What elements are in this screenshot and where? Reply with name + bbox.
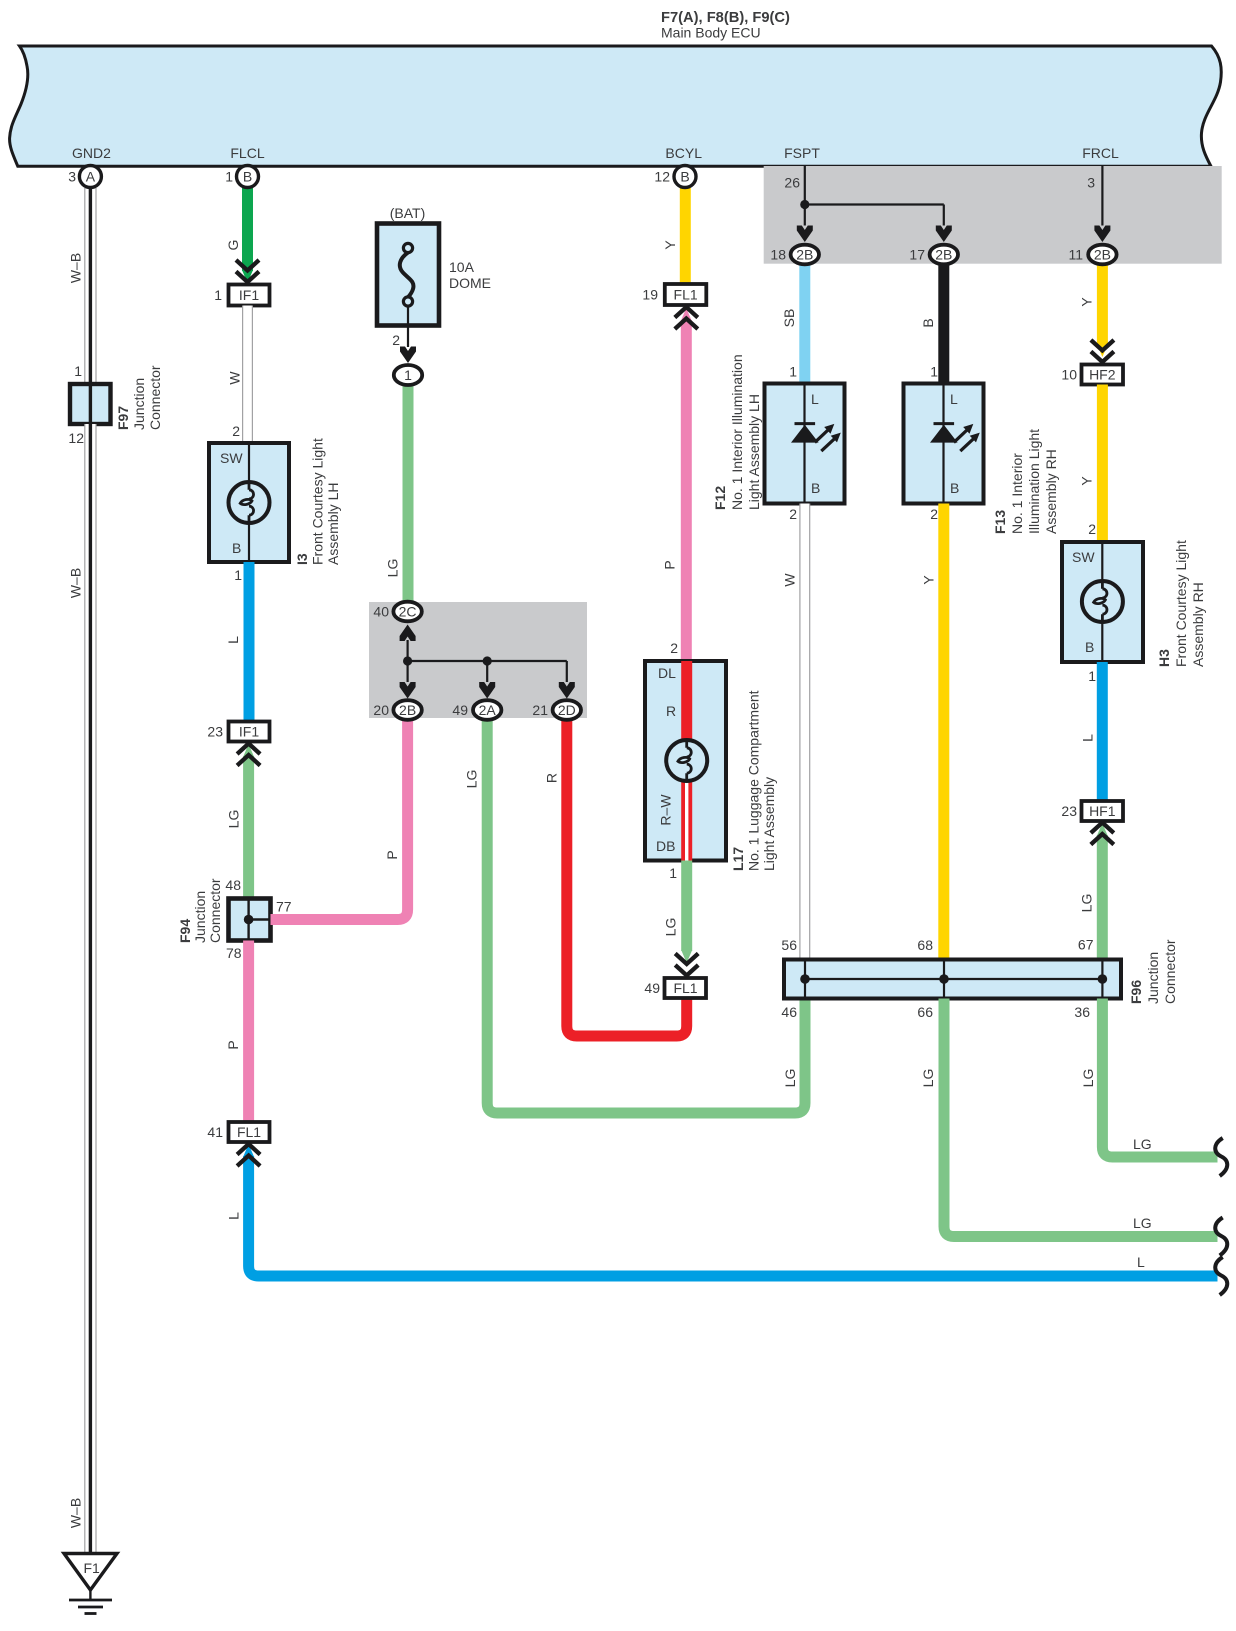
svg-text:2: 2 — [670, 640, 678, 656]
label L — [1080, 734, 1096, 742]
svg-text:DL: DL — [658, 665, 676, 681]
wire LG from F96 pin 66 to right break — [944, 999, 1218, 1237]
label LG — [663, 918, 679, 937]
wire LG from L17 pin 1 to FL1 49 — [681, 861, 692, 964]
chevron into HF2 — [1091, 340, 1114, 362]
svg-text:10A: 10A — [449, 259, 475, 275]
label LG — [1079, 894, 1095, 913]
interior illumination light assembly LH F12 — [712, 354, 845, 510]
svg-text:21: 21 — [532, 702, 548, 718]
svg-text:18: 18 — [770, 247, 786, 263]
label W-B middle — [68, 568, 84, 598]
svg-text:1: 1 — [404, 367, 412, 383]
svg-text:11: 11 — [1068, 247, 1083, 263]
svg-text:W–B: W–B — [68, 1498, 84, 1528]
arrows down into 2B 2A 2D — [400, 682, 416, 699]
label P — [662, 560, 678, 569]
svg-text:FL1: FL1 — [674, 287, 698, 303]
svg-text:GND2: GND2 — [72, 145, 111, 161]
svg-text:41: 41 — [207, 1124, 223, 1140]
svg-text:W–B: W–B — [68, 568, 84, 598]
svg-text:Main Body ECU: Main Body ECU — [661, 25, 761, 41]
wire L from H3 pin 1 to HF1 — [1097, 662, 1108, 801]
arrow up into 2C — [400, 625, 416, 642]
front courtesy light assembly RH H3 — [1062, 540, 1206, 667]
wire Y from 2B 11 to HF2 — [1097, 262, 1108, 357]
svg-text:Y: Y — [1079, 297, 1095, 307]
svg-text:No. 1 Interior Illumination: No. 1 Interior Illumination — [729, 354, 745, 510]
svg-text:48: 48 — [225, 877, 241, 893]
connector box HF2 pin 10 — [1061, 365, 1123, 385]
svg-text:Connector: Connector — [147, 365, 163, 430]
wire B from 2B 17 to F13 pin 1 — [938, 262, 949, 384]
connector oval 2B pin 17 — [909, 245, 958, 265]
svg-text:SB: SB — [781, 309, 797, 328]
svg-text:20: 20 — [373, 702, 389, 718]
label LG — [385, 559, 401, 578]
svg-text:Y: Y — [1079, 476, 1095, 486]
svg-text:IF1: IF1 — [239, 724, 259, 740]
svg-text:46: 46 — [781, 1004, 797, 1020]
svg-text:FLCL: FLCL — [230, 145, 264, 161]
arrow into oval 1 — [400, 347, 416, 364]
svg-text:1: 1 — [930, 364, 938, 380]
svg-text:LG: LG — [782, 1069, 798, 1088]
label LG 2A — [464, 770, 480, 789]
wire W from IF1 to I3 pin 2 — [242, 306, 253, 444]
svg-text:P: P — [384, 850, 400, 859]
svg-text:W–B: W–B — [68, 253, 84, 283]
svg-text:Light Assembly LH: Light Assembly LH — [746, 394, 762, 510]
svg-text:L: L — [1137, 1254, 1145, 1270]
svg-text:IF1: IF1 — [239, 287, 259, 303]
FSPT branch wiring in gray box — [800, 166, 1102, 226]
svg-text:2B: 2B — [796, 247, 813, 263]
label R — [544, 773, 560, 783]
svg-text:67: 67 — [1078, 937, 1094, 953]
break symbol LG 36 — [1215, 1138, 1227, 1176]
svg-text:2B: 2B — [399, 702, 416, 718]
connector box HF1 pin 23 — [1061, 801, 1123, 821]
svg-text:2A: 2A — [479, 702, 497, 718]
connector box FL1 pin 41 — [207, 1122, 269, 1142]
svg-text:Connector: Connector — [207, 878, 223, 943]
connector oval 2B pin 20 — [373, 700, 421, 720]
wire P from 2B to F94 pin 77 — [271, 716, 408, 920]
svg-text:LG: LG — [464, 770, 480, 789]
svg-text:2: 2 — [232, 423, 240, 439]
svg-text:SW: SW — [1072, 549, 1095, 565]
svg-text:DOME: DOME — [449, 275, 491, 291]
svg-text:HF1: HF1 — [1089, 803, 1116, 819]
svg-text:Y: Y — [921, 575, 937, 585]
connector box IF1 pin 23 — [207, 722, 269, 742]
svg-text:W: W — [227, 371, 243, 385]
svg-text:2B: 2B — [1094, 247, 1111, 263]
gray connector region top right — [764, 166, 1222, 264]
label P — [384, 850, 400, 859]
svg-text:B: B — [243, 169, 252, 185]
junction connector F94 — [177, 877, 292, 961]
svg-text:1: 1 — [669, 865, 677, 881]
svg-text:Junction: Junction — [131, 378, 147, 430]
svg-text:No. 1 Luggage Compartment: No. 1 Luggage Compartment — [746, 690, 762, 871]
svg-text:12: 12 — [654, 169, 670, 185]
svg-text:1: 1 — [234, 567, 242, 583]
label Y — [921, 575, 937, 585]
wire SB from 2B 18 to F12 pin 1 — [799, 262, 810, 384]
svg-text:56: 56 — [781, 937, 797, 953]
label L below FL1 41 — [226, 1212, 242, 1220]
svg-text:L: L — [225, 636, 241, 644]
svg-text:66: 66 — [917, 1004, 933, 1020]
luggage compartment light assembly L17 — [645, 661, 777, 871]
svg-text:R–W: R–W — [658, 794, 674, 826]
svg-text:Light Assembly: Light Assembly — [761, 777, 777, 871]
connector box IF1 pin 1 — [214, 285, 269, 306]
wire W-B from F97 pin 12 to ground F1 — [84, 424, 96, 1553]
label W — [782, 573, 798, 587]
wire L from FL1 41 to right break — [243, 1144, 1217, 1276]
svg-text:F12: F12 — [712, 486, 728, 510]
connector oval 1 — [394, 365, 422, 385]
connector oval 2D pin 21 — [532, 700, 581, 720]
svg-text:23: 23 — [207, 724, 223, 740]
Main Body ECU band — [10, 46, 1222, 166]
label Y — [662, 240, 678, 250]
label Y — [1079, 297, 1095, 307]
label B — [920, 318, 936, 327]
svg-text:1: 1 — [74, 363, 82, 379]
svg-text:HF2: HF2 — [1089, 367, 1116, 383]
svg-text:3: 3 — [68, 169, 76, 185]
label LG near 46 — [782, 1069, 798, 1088]
svg-text:B: B — [1085, 639, 1094, 655]
svg-text:P: P — [662, 560, 678, 569]
label L — [225, 636, 241, 644]
gray connector region middle — [369, 602, 587, 718]
arrows into 2B ovals — [797, 226, 813, 243]
wire from fuse pin 2 — [407, 306, 409, 347]
svg-text:12: 12 — [68, 430, 84, 446]
front courtesy light assembly LH I3 — [209, 438, 341, 565]
svg-text:17: 17 — [909, 247, 925, 263]
svg-text:B: B — [680, 169, 689, 185]
svg-text:LG: LG — [1080, 1069, 1096, 1088]
svg-text:LG: LG — [1133, 1215, 1152, 1231]
svg-text:2C: 2C — [399, 604, 417, 620]
svg-text:B: B — [232, 540, 241, 556]
svg-text:A: A — [86, 169, 96, 185]
svg-text:40: 40 — [373, 604, 389, 620]
ground F1 — [64, 1554, 117, 1614]
wire LG from IF1 23 to F94 pin 48 — [243, 744, 254, 899]
label LG — [226, 810, 242, 829]
svg-text:2: 2 — [930, 506, 938, 522]
svg-text:SW: SW — [220, 450, 243, 466]
svg-text:LG: LG — [663, 918, 679, 937]
wire LG from oval 1 to 2C — [403, 380, 414, 612]
chevron out of FL1 41 — [237, 1144, 260, 1166]
connector oval 2B pin 11 — [1068, 245, 1116, 265]
svg-text:1: 1 — [789, 364, 797, 380]
wire LG from 2A to F96 pin 46 — [487, 716, 805, 1113]
svg-text:F97: F97 — [115, 406, 131, 430]
svg-text:L: L — [950, 391, 958, 407]
svg-text:3: 3 — [1087, 175, 1095, 191]
interior illumination light assembly RH F13 — [904, 384, 1060, 535]
label P — [225, 1040, 241, 1049]
label LG near 66 — [920, 1069, 936, 1088]
chevron into FL1 49 — [675, 954, 698, 976]
svg-text:77: 77 — [276, 899, 292, 915]
svg-text:L: L — [226, 1212, 242, 1220]
svg-text:LG: LG — [1079, 894, 1095, 913]
svg-text:23: 23 — [1061, 803, 1077, 819]
break symbol L — [1215, 1257, 1227, 1295]
wire L from I3 pin 1 to IF1 pin 23 — [244, 562, 255, 722]
svg-text:Junction: Junction — [1145, 952, 1161, 1004]
svg-text:Junction: Junction — [192, 891, 208, 943]
svg-text:2: 2 — [1088, 521, 1096, 537]
svg-text:2D: 2D — [558, 702, 576, 718]
connector oval 2B pin 18 — [770, 245, 819, 265]
chevron into IF1 — [236, 260, 259, 282]
svg-text:FRCL: FRCL — [1082, 145, 1119, 161]
svg-text:B: B — [950, 480, 959, 496]
chevron out of FL1 19 — [675, 307, 698, 329]
svg-text:10: 10 — [1061, 367, 1077, 383]
svg-text:L: L — [811, 391, 819, 407]
svg-text:19: 19 — [642, 287, 658, 303]
wire G from FLCL pin 1B — [242, 188, 253, 283]
svg-text:Assembly LH: Assembly LH — [325, 483, 341, 565]
connector circle A pin 3 (GND2) — [68, 166, 101, 188]
connector circle B pin 1 (FLCL) — [225, 166, 258, 188]
break symbol LG 66 — [1215, 1218, 1227, 1256]
svg-text:LG: LG — [226, 810, 242, 829]
svg-text:26: 26 — [784, 175, 800, 191]
svg-text:2: 2 — [392, 332, 400, 348]
svg-text:FSPT: FSPT — [784, 145, 820, 161]
wire W-B from GND2 pin 3A to F97 — [84, 188, 96, 384]
svg-text:H3: H3 — [1156, 649, 1172, 667]
wire Y from HF2 to H3 pin 2 — [1097, 385, 1108, 543]
svg-text:F1: F1 — [84, 1560, 101, 1576]
svg-text:F94: F94 — [177, 919, 193, 943]
connector oval 2A pin 49 — [452, 700, 501, 720]
wire W from F12 pin 2 to F96 pin 56 — [799, 504, 810, 960]
chevron out of HF1 — [1091, 823, 1114, 845]
svg-text:68: 68 — [917, 937, 933, 953]
svg-text:Illumination Light: Illumination Light — [1026, 429, 1042, 534]
svg-text:LG: LG — [1133, 1136, 1152, 1152]
svg-text:I3: I3 — [294, 553, 310, 565]
svg-text:No. 1 Interior: No. 1 Interior — [1009, 453, 1025, 534]
svg-text:Assembly RH: Assembly RH — [1043, 449, 1059, 534]
svg-text:1: 1 — [214, 287, 222, 303]
svg-text:36: 36 — [1074, 1004, 1090, 1020]
svg-text:LG: LG — [920, 1069, 936, 1088]
wire R from 2D to FL1 pin 49 — [567, 716, 687, 1036]
svg-text:Front Courtesy Light: Front Courtesy Light — [1173, 540, 1189, 667]
connector circle B pin 12 (BCYL) — [654, 166, 696, 188]
svg-text:B: B — [920, 318, 936, 327]
svg-text:Connector: Connector — [1162, 939, 1178, 1004]
gray box internal wiring 2C to 2B 2A 2D — [403, 640, 567, 682]
svg-text:G: G — [225, 240, 241, 251]
svg-text:L: L — [1080, 734, 1096, 742]
svg-text:R: R — [666, 703, 676, 719]
svg-text:B: B — [811, 480, 820, 496]
svg-text:Assembly RH: Assembly RH — [1190, 582, 1206, 667]
label LG near 36 — [1080, 1069, 1096, 1088]
wire P from F94 pin 78 to FL1 pin 41 — [243, 941, 254, 1123]
svg-text:2B: 2B — [935, 247, 952, 263]
svg-text:Y: Y — [662, 240, 678, 250]
connector box FL1 pin 19 — [642, 284, 706, 305]
svg-text:W: W — [782, 573, 798, 587]
svg-text:49: 49 — [452, 702, 468, 718]
label SB — [781, 309, 797, 328]
connector box FL1 pin 49 — [644, 978, 706, 998]
svg-text:FL1: FL1 — [237, 1124, 261, 1140]
label W-B lower — [68, 1498, 84, 1528]
svg-text:F13: F13 — [992, 510, 1008, 534]
svg-text:R: R — [544, 773, 560, 783]
svg-text:DB: DB — [656, 838, 675, 854]
svg-text:LG: LG — [385, 559, 401, 578]
svg-text:(BAT): (BAT) — [390, 205, 426, 221]
chevron out of IF1 23 — [237, 744, 260, 766]
junction connector F96 — [784, 939, 1178, 1004]
svg-text:Front Courtesy Light: Front Courtesy Light — [310, 438, 326, 565]
wire P from FL1 19 to L17 pin 2 — [681, 308, 692, 661]
svg-text:49: 49 — [644, 980, 660, 996]
svg-text:P: P — [225, 1040, 241, 1049]
label W — [227, 371, 243, 385]
wire LG from F96 pin 36 to right break — [1102, 999, 1217, 1158]
label G — [225, 240, 241, 251]
label W-B upper — [68, 253, 84, 283]
fuse 10A DOME — [377, 224, 491, 326]
svg-text:L17: L17 — [730, 847, 746, 871]
svg-text:BCYL: BCYL — [665, 145, 702, 161]
wire Y from BCYL pin 12B to FL1 19 — [680, 188, 691, 284]
connector oval 2C pin 40 — [373, 602, 421, 622]
svg-text:F96: F96 — [1128, 980, 1144, 1004]
junction connector F97 — [68, 363, 163, 446]
svg-text:FL1: FL1 — [673, 980, 697, 996]
label Y — [1079, 476, 1095, 486]
svg-text:2: 2 — [789, 506, 797, 522]
svg-text:1: 1 — [1088, 668, 1096, 684]
wire LG from HF1 to F96 pin 67 — [1097, 823, 1108, 960]
svg-text:78: 78 — [226, 945, 242, 961]
wire Y from F13 pin 2 to F96 pin 68 — [938, 504, 949, 960]
svg-text:1: 1 — [225, 169, 233, 185]
